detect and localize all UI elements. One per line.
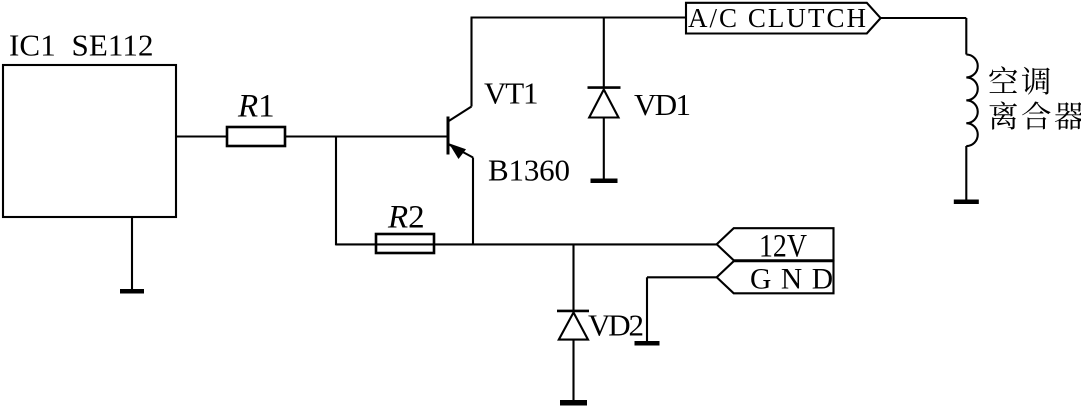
- svg-text:GND: GND: [750, 264, 833, 296]
- svg-text:IC1 SE112: IC1 SE112: [9, 28, 154, 63]
- svg-text:VD1: VD1: [634, 87, 691, 122]
- svg-text:12V: 12V: [759, 229, 807, 265]
- svg-text:R2: R2: [387, 199, 425, 235]
- svg-text:VD2: VD2: [588, 308, 644, 343]
- svg-text:VT1: VT1: [484, 76, 539, 111]
- svg-text:B1360: B1360: [488, 152, 570, 187]
- svg-text:R1: R1: [237, 89, 275, 125]
- svg-text:A/C CLUTCH: A/C CLUTCH: [688, 3, 866, 33]
